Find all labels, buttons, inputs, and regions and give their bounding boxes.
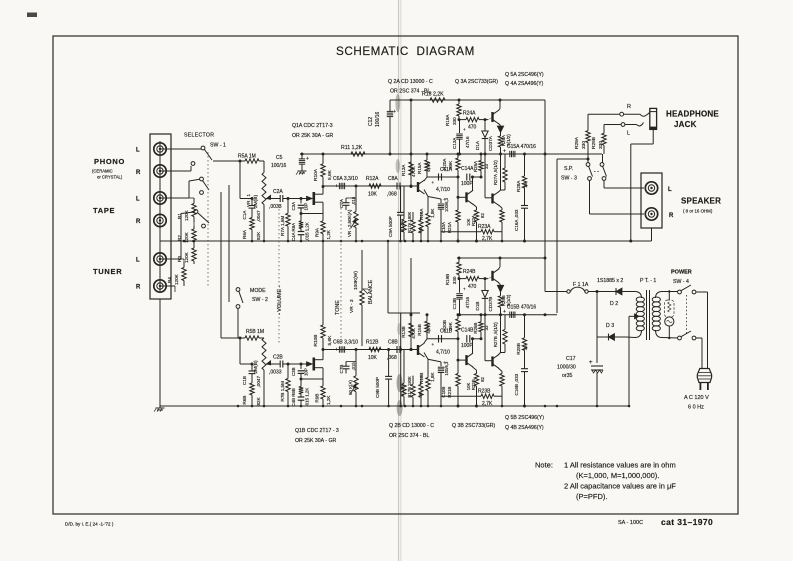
svg-text:R: R <box>627 104 631 110</box>
svg-text:C4A R8A: C4A R8A <box>291 223 296 241</box>
svg-text:6 0 Hz: 6 0 Hz <box>688 405 704 411</box>
node junction <box>361 405 364 408</box>
wire <box>662 291 678 293</box>
wire <box>696 291 708 293</box>
wire <box>220 192 222 338</box>
svg-text:100P: 100P <box>461 343 473 349</box>
node junction <box>404 240 407 243</box>
svg-text:470: 470 <box>468 125 477 131</box>
wire <box>346 197 356 199</box>
resistor R21B <box>456 374 460 387</box>
svg-text:1,2K: 1,2K <box>326 395 331 405</box>
node channel-A ground bus <box>160 240 631 242</box>
switch SW-3 pole 2 <box>600 163 604 167</box>
svg-text:D/D. by I. E.( 24 -1-'72 ): D/D. by I. E.( 24 -1-'72 ) <box>65 522 114 527</box>
svg-text:C17: C17 <box>566 356 576 362</box>
svg-text:39K: 39K <box>448 321 453 330</box>
node junction <box>457 405 460 408</box>
svg-text:D1A: D1A <box>475 140 480 150</box>
svg-text:,0047: ,0047 <box>256 376 261 388</box>
node C6A line <box>323 185 418 187</box>
svg-text:120K: 120K <box>184 251 189 263</box>
node B+ rail A <box>390 99 545 101</box>
svg-text:C1B: C1B <box>242 376 247 385</box>
wire <box>239 338 241 364</box>
svg-text:Q 4A 2SA496(Y): Q 4A 2SA496(Y) <box>505 81 544 87</box>
svg-text:SW - 1: SW - 1 <box>210 143 226 149</box>
svg-text:+: + <box>393 109 396 115</box>
jack TAPE L <box>154 192 166 204</box>
wire <box>625 124 637 126</box>
wire <box>588 291 608 293</box>
svg-text:R29B: R29B <box>591 137 597 149</box>
switch SW-4 pole 1 <box>678 290 682 294</box>
svg-text:R25A: R25A <box>473 161 478 172</box>
wire <box>485 197 491 199</box>
connector AC plug <box>697 369 711 383</box>
svg-text:Q 5B 2SC496(Y): Q 5B 2SC496(Y) <box>505 415 544 421</box>
svg-text:C16A ,033: C16A ,033 <box>514 209 519 231</box>
switch SW-1 contact <box>191 162 195 166</box>
wire <box>557 158 588 160</box>
wire <box>662 337 678 340</box>
node B+ rail B <box>457 257 546 259</box>
transistor Q1B <box>307 362 313 366</box>
svg-text:C4B R8B: C4B R8B <box>291 388 296 406</box>
svg-text:R: R <box>136 170 141 176</box>
svg-text:C3B: C3B <box>291 367 296 376</box>
switch SW-1 contact <box>202 224 206 228</box>
svg-text:JACK: JACK <box>674 120 697 129</box>
svg-text:+: + <box>335 347 338 353</box>
svg-text:R: R <box>136 219 141 225</box>
wire <box>315 193 323 195</box>
diode D2 <box>608 291 630 293</box>
node junction <box>420 405 423 408</box>
svg-text:R29A: R29A <box>574 136 580 149</box>
wire <box>189 197 194 199</box>
node junction <box>399 405 402 408</box>
svg-text:SA - 100C: SA - 100C <box>618 520 643 526</box>
transformer PT-1 secondary winding <box>636 297 644 302</box>
svg-text:Q 2A CD 13000 - C: Q 2A CD 13000 - C <box>388 79 433 85</box>
svg-text:R19A: R19A <box>445 114 450 126</box>
svg-text:MODE: MODE <box>250 288 266 294</box>
node junction <box>361 240 364 243</box>
switch SW-1 contact <box>194 210 198 214</box>
svg-text:,0047: ,0047 <box>256 210 261 222</box>
svg-text:TAPE: TAPE <box>93 206 115 215</box>
wire <box>160 170 191 172</box>
svg-text:SW - 2: SW - 2 <box>252 297 268 303</box>
svg-text:,068: ,068 <box>387 192 397 198</box>
node junction <box>193 240 196 243</box>
svg-text:R28B: R28B <box>516 343 521 355</box>
svg-text:L: L <box>136 197 140 203</box>
jack TUNER R <box>154 280 166 292</box>
svg-text:39K: 39K <box>448 160 453 169</box>
transistor Q5B <box>491 271 493 281</box>
svg-text:Q 5A 2SC496(Y): Q 5A 2SC496(Y) <box>505 72 544 78</box>
svg-text:R7B 1,5M: R7B 1,5M <box>280 381 285 402</box>
svg-text:R20B: R20B <box>442 320 447 332</box>
node junction <box>544 405 547 408</box>
wire <box>266 198 276 200</box>
wire <box>159 299 161 406</box>
svg-text:120K: 120K <box>174 273 179 285</box>
svg-text:CD37B: CD37B <box>488 297 493 312</box>
wire <box>630 291 635 293</box>
svg-text:+: + <box>306 156 309 162</box>
transistor Q1A <box>307 196 313 200</box>
resistor R21A <box>456 210 460 222</box>
svg-text:R10B: R10B <box>313 335 319 347</box>
node junction <box>596 405 599 408</box>
svg-text:+: + <box>463 127 466 132</box>
svg-text:100K(W): 100K(W) <box>353 271 359 290</box>
switch headphone R contact <box>620 112 624 116</box>
node speaker box <box>641 173 662 228</box>
svg-text:C16B ,033: C16B ,033 <box>514 373 519 395</box>
svg-text:Q 2B CD 13000 - C: Q 2B CD 13000 - C <box>389 423 434 429</box>
wire <box>387 241 389 313</box>
wire <box>266 363 276 365</box>
wire <box>696 337 702 339</box>
switch SW-1 contact <box>200 191 204 195</box>
svg-text:C8B: C8B <box>388 340 398 346</box>
node B+ vertical <box>544 100 546 292</box>
svg-text:R27A ,5(1/2): R27A ,5(1/2) <box>493 160 498 185</box>
svg-text:(K=1,000, M=1,000,000).: (K=1,000, M=1,000,000). <box>576 471 659 480</box>
svg-text:SELECTOR: SELECTOR <box>184 133 214 139</box>
switch headphone L contact <box>621 123 625 127</box>
svg-text:or CRYSTAL): or CRYSTAL) <box>97 175 123 180</box>
svg-text:C1A: C1A <box>242 210 247 220</box>
svg-text:POWER: POWER <box>671 270 692 276</box>
switch SW-4 pole 2 <box>678 336 682 340</box>
svg-text:L: L <box>627 131 630 137</box>
wire <box>287 363 307 365</box>
svg-text:C2B: C2B <box>273 355 283 361</box>
switch SW-1 pole 1 <box>201 146 205 150</box>
ground <box>159 405 161 408</box>
svg-text:C9A 500P: C9A 500P <box>388 216 393 237</box>
wire <box>500 315 502 353</box>
wire <box>207 152 209 286</box>
svg-text:L: L <box>136 258 140 264</box>
svg-text:+: + <box>432 180 435 185</box>
svg-text:+: + <box>589 360 593 366</box>
node junction <box>251 240 254 243</box>
svg-text:R: R <box>669 213 674 219</box>
wire <box>473 367 477 370</box>
wire <box>340 200 342 340</box>
svg-text:R5B 1M: R5B 1M <box>246 329 264 335</box>
wire <box>473 338 482 340</box>
wire <box>213 160 240 162</box>
svg-text:,0033: ,0033 <box>269 370 282 376</box>
svg-text:+: + <box>335 184 338 190</box>
node junction <box>287 405 290 408</box>
svg-text:R20A: R20A <box>442 158 447 170</box>
wire <box>181 258 184 260</box>
wire <box>424 177 427 181</box>
svg-text:R13A: R13A <box>401 164 406 176</box>
svg-text:( 8 or 16 OHM): ( 8 or 16 OHM) <box>683 209 713 214</box>
transformer PT-1 primary winding <box>652 297 660 302</box>
wire <box>355 348 358 351</box>
wire <box>160 285 175 287</box>
svg-text:82K: 82K <box>256 396 261 405</box>
node junction <box>300 240 303 243</box>
node headphone L line <box>604 124 621 126</box>
svg-text:BALANCE: BALANCE <box>368 279 374 304</box>
svg-text:D 2: D 2 <box>610 301 618 307</box>
svg-text:D1B: D1B <box>475 302 480 311</box>
node C11 wire <box>427 176 458 178</box>
transistor Q4A <box>491 194 493 204</box>
svg-text:R24B: R24B <box>463 269 476 275</box>
svg-text:R27B ,5(1/2): R27B ,5(1/2) <box>493 322 498 347</box>
node junction <box>523 405 526 408</box>
node corner mark <box>27 13 37 18</box>
node output line B <box>457 314 557 316</box>
node junction <box>183 240 186 243</box>
wire <box>398 0 400 561</box>
svg-text:,015 1,2K: ,015 1,2K <box>305 222 310 241</box>
svg-text:Q 3B 2SC733(GR): Q 3B 2SC733(GR) <box>452 423 496 429</box>
svg-text:C15A 470/16: C15A 470/16 <box>507 144 536 150</box>
svg-text:2 All capacitance values: 2 All capacitance values are in μF <box>564 482 676 491</box>
node junction <box>263 405 266 408</box>
svg-text:TUNER: TUNER <box>93 267 122 276</box>
wire <box>287 198 307 200</box>
svg-text:A C 120 V: A C 120 V <box>684 395 709 401</box>
svg-text:100P: 100P <box>461 181 473 187</box>
svg-text:120K: 120K <box>184 209 189 221</box>
node transformer tap arrow <box>629 315 635 317</box>
node channel-B ground bus <box>160 405 630 407</box>
svg-text:SCHEMATIC DIAGRAM: SCHEMATIC DIAGRAM <box>336 45 475 58</box>
wire <box>160 258 181 260</box>
wire <box>556 159 558 313</box>
wire <box>630 291 635 293</box>
svg-text:Note:: Note: <box>535 461 553 470</box>
wire <box>626 336 635 338</box>
wire <box>488 118 493 120</box>
node junction <box>263 240 266 243</box>
svg-text:47/16: 47/16 <box>465 296 470 308</box>
wire <box>315 367 323 369</box>
jack SPEAKER L <box>645 182 657 194</box>
svg-text:,015: ,015 <box>351 362 356 371</box>
node preamp rail A <box>300 153 602 155</box>
svg-text:or35: or35 <box>562 373 572 379</box>
jack PHONO L <box>154 143 166 155</box>
svg-text:R12A: R12A <box>366 176 379 182</box>
svg-text:OR 2SC 374 - BL: OR 2SC 374 - BL <box>389 433 429 439</box>
wire <box>500 154 502 190</box>
svg-text:L: L <box>668 187 672 193</box>
svg-text:R9B: R9B <box>315 394 320 403</box>
svg-text:10K: 10K <box>368 192 378 198</box>
switch SW-1 pole 2 <box>200 177 204 181</box>
svg-text:OR 25K 30A - GR: OR 25K 30A - GR <box>292 133 333 139</box>
svg-text:470: 470 <box>468 284 477 290</box>
transistor Q5A <box>491 112 493 122</box>
svg-text:2,7K: 2,7K <box>482 401 493 407</box>
svg-text:R13B: R13B <box>401 326 406 338</box>
node junction <box>300 405 303 408</box>
node junction <box>501 240 504 243</box>
svg-text:CD37A: CD37A <box>488 135 493 151</box>
node junction <box>628 405 631 408</box>
switch SW-3 pole 1 <box>586 163 590 167</box>
wire <box>473 204 477 207</box>
wire <box>315 201 323 203</box>
svg-text:R9A: R9A <box>315 227 320 237</box>
wire <box>651 228 653 235</box>
wire <box>410 100 412 187</box>
svg-text:82: 82 <box>480 213 485 218</box>
svg-text:C5: C5 <box>276 155 283 161</box>
svg-text:Q1B CDC 2T17 - 3: Q1B CDC 2T17 - 3 <box>295 428 339 434</box>
node junction <box>322 240 325 243</box>
svg-text:C3A: C3A <box>291 202 296 211</box>
node junction <box>412 240 415 243</box>
svg-text:82: 82 <box>480 376 485 381</box>
svg-text:L: L <box>136 148 140 154</box>
svg-text:,0033: ,0033 <box>269 204 282 210</box>
svg-text:R7A 1,5M: R7A 1,5M <box>280 216 285 236</box>
node junction <box>440 405 443 408</box>
node junction <box>355 405 358 408</box>
wire <box>410 258 412 350</box>
wire <box>626 336 635 339</box>
svg-text:1S1885 x 2: 1S1885 x 2 <box>597 278 623 284</box>
svg-text:10P: 10P <box>304 203 309 211</box>
wire <box>473 176 482 178</box>
wire <box>652 129 654 144</box>
svg-text:C8A: C8A <box>388 176 398 182</box>
connector headphone jack <box>624 112 650 116</box>
wire <box>159 141 161 292</box>
node junction <box>340 240 343 243</box>
wire <box>237 309 239 339</box>
svg-text:,015 1,2K: ,015 1,2K <box>305 388 310 407</box>
node junction <box>399 240 402 243</box>
transistor Q3B <box>465 355 467 365</box>
wire <box>485 360 491 362</box>
svg-text:C9B 500P: C9B 500P <box>375 377 380 398</box>
svg-text:S.P.: S.P. <box>564 166 573 172</box>
svg-text:HEADPHONE: HEADPHONE <box>666 110 719 119</box>
wire <box>603 180 605 188</box>
svg-text:OR 25K 30A - GR: OR 25K 30A - GR <box>295 438 336 444</box>
svg-text:330: 330 <box>452 117 457 125</box>
svg-text:R19B: R19B <box>445 274 450 286</box>
node junction <box>287 240 290 243</box>
svg-text:R15B: R15B <box>417 324 422 336</box>
node junction <box>355 240 358 243</box>
wire <box>602 154 604 163</box>
svg-text:Q1A CDC 2T17-3: Q1A CDC 2T17-3 <box>292 123 333 129</box>
svg-text:R11 1,2K: R11 1,2K <box>341 145 363 151</box>
node emitter wire <box>424 190 428 197</box>
svg-text:100/16: 100/16 <box>375 111 381 127</box>
wire <box>628 316 630 406</box>
svg-text:OR 2SC 374 - BL: OR 2SC 374 - BL <box>390 89 430 95</box>
svg-text:C15B 470/16: C15B 470/16 <box>507 304 536 310</box>
node junction <box>322 405 325 408</box>
node junction <box>457 240 460 243</box>
svg-text:PHONO: PHONO <box>94 157 125 166</box>
node junction <box>475 405 478 408</box>
svg-text:(CERAMIC: (CERAMIC <box>92 169 113 174</box>
wire <box>472 177 474 191</box>
node junction <box>404 405 407 408</box>
wire <box>193 222 195 226</box>
ground <box>301 168 303 171</box>
svg-text:Q 4B 2SA496(Y): Q 4B 2SA496(Y) <box>505 425 544 431</box>
svg-text:4,7/10: 4,7/10 <box>436 350 450 356</box>
wire <box>315 359 323 361</box>
switch SW-2 <box>236 288 240 292</box>
svg-text:+: + <box>503 149 506 155</box>
svg-text:330: 330 <box>452 276 457 284</box>
jack TAPE R <box>154 214 166 226</box>
node input jack panel <box>150 134 171 299</box>
svg-text:Q 3A 2SC733(GR): Q 3A 2SC733(GR) <box>455 79 498 85</box>
svg-text:10K: 10K <box>368 355 378 361</box>
svg-text:R2: R2 <box>177 235 182 241</box>
wire <box>488 276 493 278</box>
svg-text:R25B: R25B <box>473 323 478 334</box>
svg-text:R24A: R24A <box>463 111 476 117</box>
node C6B line <box>323 349 418 351</box>
node junction <box>427 405 430 408</box>
svg-text:R1: R1 <box>177 213 182 219</box>
node junction <box>556 405 559 408</box>
svg-text:SW - 4: SW - 4 <box>673 279 689 285</box>
svg-text:+: + <box>503 309 506 315</box>
svg-text:R4: R4 <box>167 277 172 283</box>
wire <box>457 177 459 197</box>
wire <box>589 180 591 214</box>
svg-text:2,7K: 2,7K <box>482 236 493 242</box>
node junction <box>523 240 526 243</box>
svg-text:+: + <box>432 342 435 347</box>
wire <box>278 205 280 345</box>
wire <box>355 185 358 188</box>
svg-text:+: + <box>463 287 466 292</box>
svg-text:C6B 3,3/10: C6B 3,3/10 <box>333 340 358 346</box>
svg-text:R6B: R6B <box>242 396 247 405</box>
wire <box>160 148 201 150</box>
svg-text:100/6,3: 100/6,3 <box>444 361 449 376</box>
wire <box>499 109 501 111</box>
svg-text:R17B 180K: R17B 180K <box>407 376 412 398</box>
node junction <box>387 405 390 408</box>
svg-text:C12: C12 <box>368 117 374 126</box>
svg-text:R6A: R6A <box>242 229 247 239</box>
svg-text:100/6,3: 100/6,3 <box>444 197 449 212</box>
svg-text:R28A: R28A <box>516 180 521 192</box>
svg-text:C13A: C13A <box>452 137 457 149</box>
svg-text:1,2K: 1,2K <box>326 229 331 239</box>
node junction <box>427 240 430 243</box>
svg-text:,015: ,015 <box>351 196 356 205</box>
